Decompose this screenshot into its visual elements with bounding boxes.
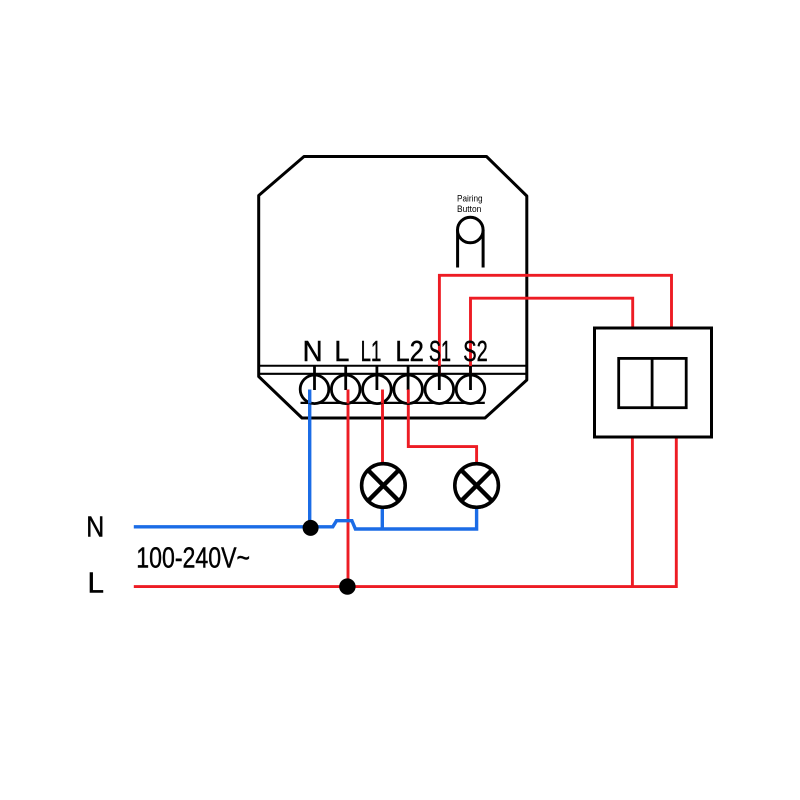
svg-text:100-240V~: 100-240V~ <box>136 543 250 575</box>
svg-text:Pairing: Pairing <box>457 194 483 205</box>
svg-text:L2: L2 <box>395 335 424 367</box>
svg-text:Button: Button <box>457 204 481 215</box>
svg-text:S2: S2 <box>463 335 487 367</box>
svg-text:L: L <box>88 568 105 600</box>
svg-text:N: N <box>303 335 323 367</box>
svg-text:L1: L1 <box>361 335 382 367</box>
svg-text:N: N <box>86 511 104 543</box>
svg-text:S1: S1 <box>429 335 451 367</box>
svg-text:L: L <box>334 335 349 367</box>
